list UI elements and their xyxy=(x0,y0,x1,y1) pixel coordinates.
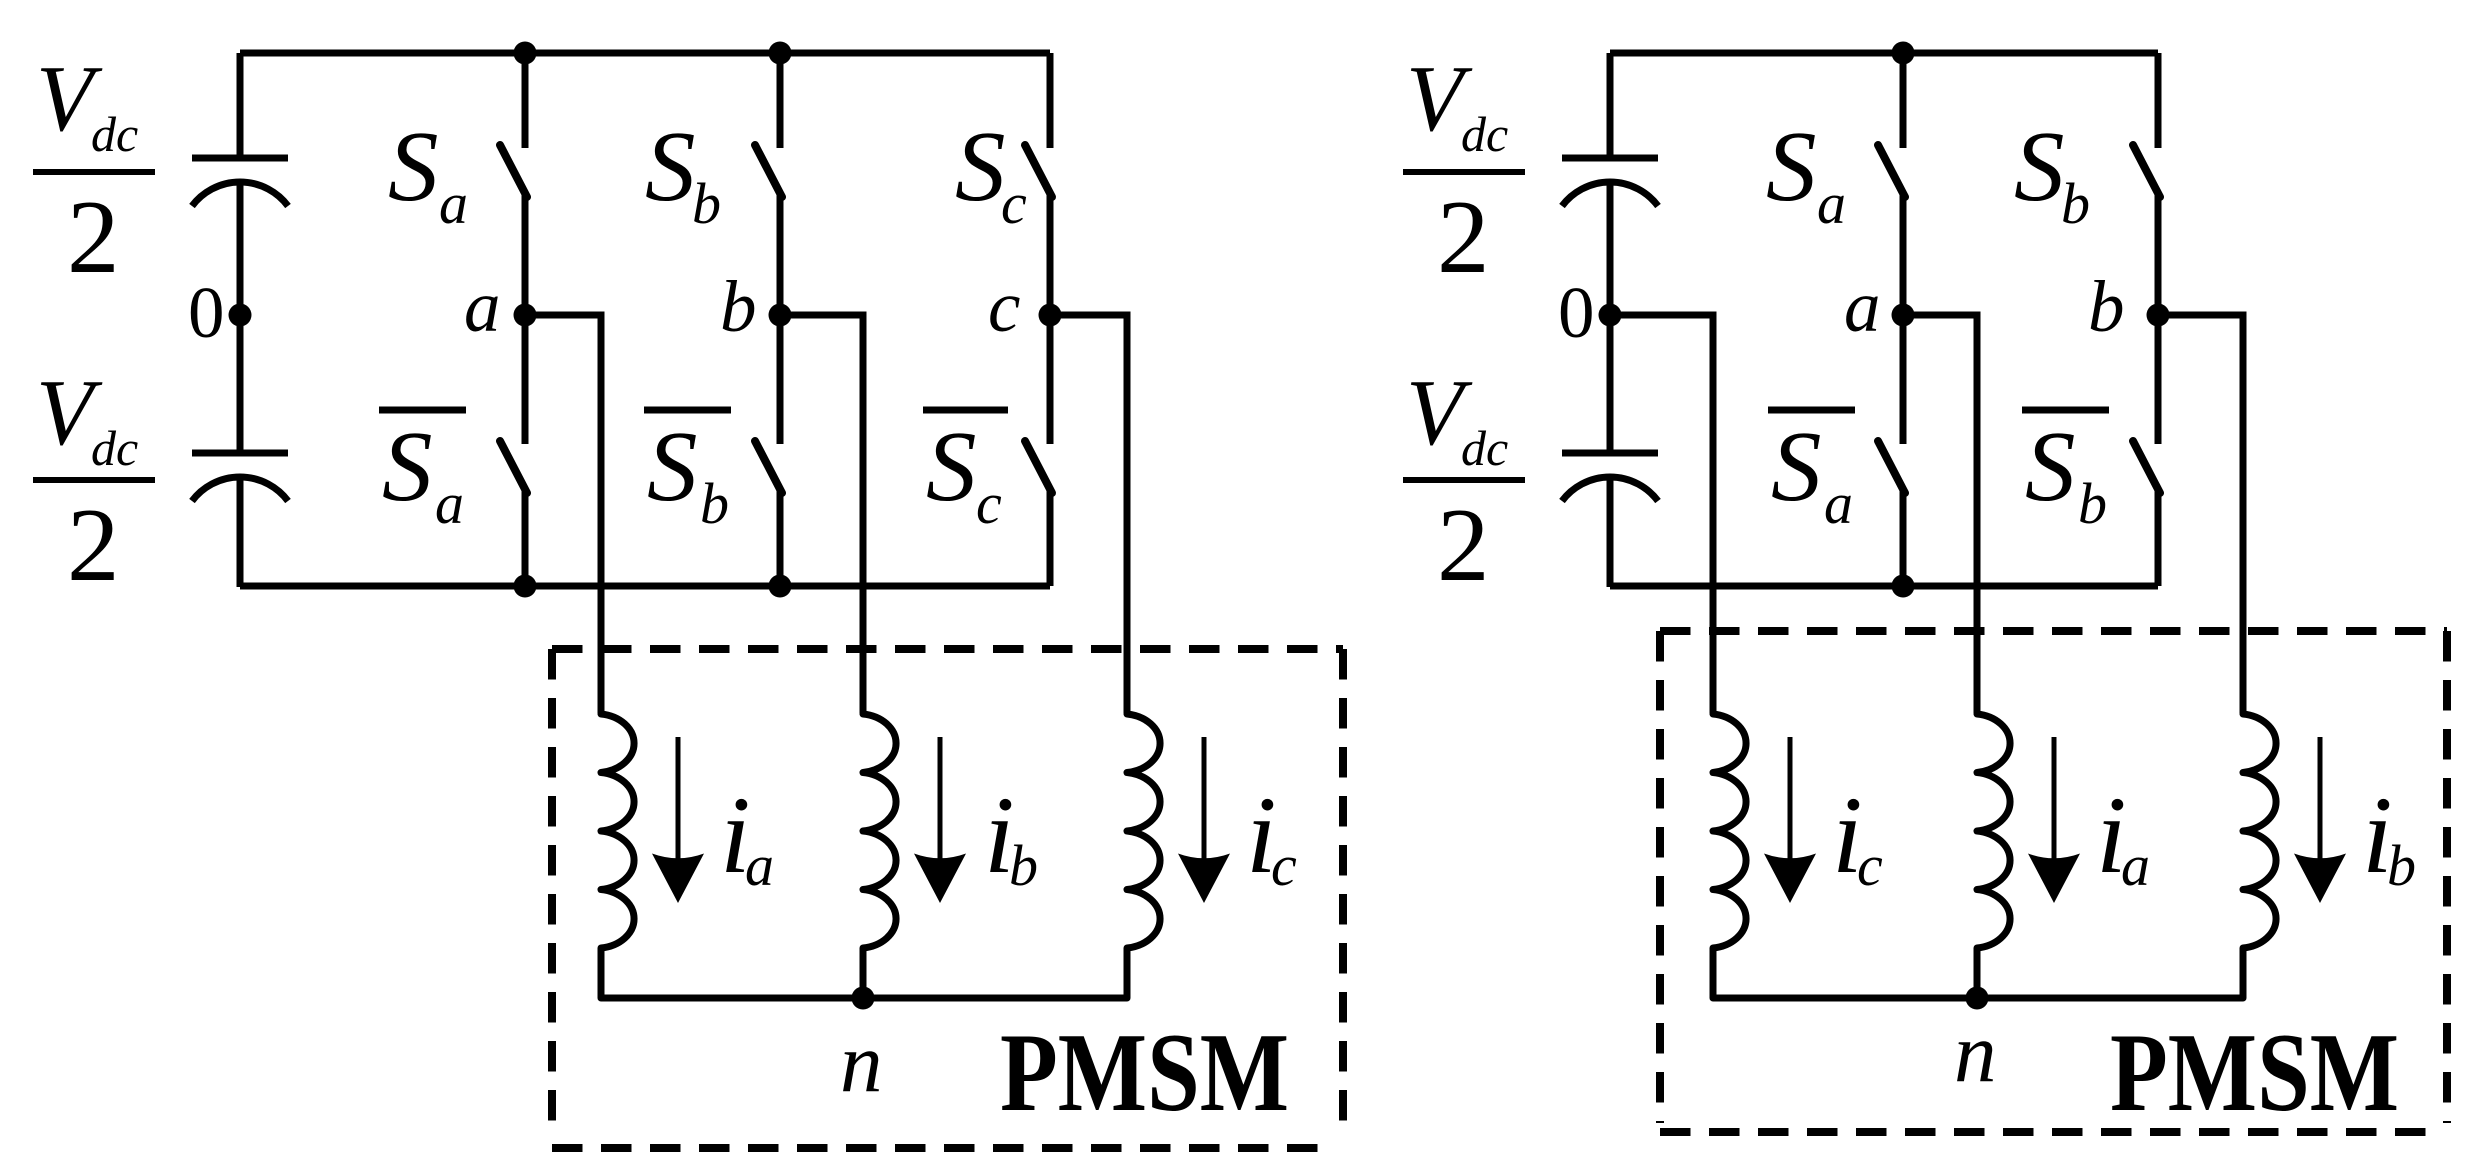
svg-text:S: S xyxy=(647,410,698,522)
current arrow ia (right) xyxy=(2028,737,2080,903)
wire node a to phase-a coil (right) xyxy=(1903,315,1977,713)
wire node b to phase-b coil (right) xyxy=(2158,315,2243,713)
wire node 0 to phase-c coil (right) xyxy=(1610,315,1713,713)
PMSM box (left) xyxy=(552,649,1343,1148)
svg-text:b: b xyxy=(2387,833,2416,898)
wire bottom rail left xyxy=(240,583,1050,590)
node b (left) xyxy=(769,304,792,327)
switch Sa (left) xyxy=(500,53,527,315)
label Vdc/2 upper (right) xyxy=(1403,47,1525,295)
switch S̄b (right) xyxy=(2133,315,2160,586)
label ic (right) xyxy=(1832,774,1883,898)
svg-text:a: a xyxy=(439,171,468,236)
svg-text:PMSM: PMSM xyxy=(1000,1011,1289,1135)
capacitor upper Vdc/2 (right) xyxy=(1562,158,1658,206)
switch S̄a (right) xyxy=(1878,315,1905,586)
capacitor lower Vdc/2 (left) xyxy=(192,453,288,501)
node a (left) xyxy=(514,304,537,327)
svg-text:n: n xyxy=(840,1016,883,1110)
svg-text:b: b xyxy=(2061,171,2090,236)
node top rail / leg b (left) xyxy=(769,42,792,65)
svg-text:PMSM: PMSM xyxy=(2110,1011,2399,1135)
node b (right) xyxy=(2147,304,2170,327)
switch Sb (left) xyxy=(755,53,782,315)
label Sb (left) xyxy=(645,110,721,236)
inductor phase c (left) xyxy=(1127,714,1160,998)
node n (left) xyxy=(852,987,875,1010)
svg-text:dc: dc xyxy=(91,420,138,476)
label S̄a (right) xyxy=(1768,410,1855,536)
svg-text:c: c xyxy=(1271,833,1297,898)
svg-text:c: c xyxy=(988,266,1020,347)
current arrow ib (right) xyxy=(2294,737,2346,903)
node c (left) xyxy=(1039,304,1062,327)
node a (right) xyxy=(1892,304,1915,327)
svg-text:a: a xyxy=(464,266,501,347)
node 0 (right) xyxy=(1599,304,1622,327)
svg-text:b: b xyxy=(1009,833,1038,898)
switch Sa (right) xyxy=(1878,53,1905,315)
wire neutral bus (left) xyxy=(601,995,1127,1002)
wire node b to phase-b coil (left) xyxy=(780,315,863,713)
node bottom rail / leg a (left) xyxy=(514,575,537,598)
inductor phase c (right) xyxy=(1713,714,1746,998)
label S̄b (right) xyxy=(2022,410,2109,536)
wire top rail left xyxy=(240,50,1050,57)
svg-text:S: S xyxy=(1766,110,1817,222)
svg-text:a: a xyxy=(1844,266,1881,347)
svg-text:S: S xyxy=(926,410,977,522)
svg-text:dc: dc xyxy=(1461,420,1508,476)
svg-text:2: 2 xyxy=(67,178,120,295)
inductor phase b (right) xyxy=(2243,714,2276,998)
switch S̄a (left) xyxy=(500,315,527,586)
svg-text:2: 2 xyxy=(1437,486,1490,603)
wire top rail right xyxy=(1610,50,2158,57)
svg-text:n: n xyxy=(1954,1006,1997,1100)
label Sa (right) xyxy=(1766,110,1846,236)
current arrow ic (right) xyxy=(1764,737,1816,903)
PMSM box (right) xyxy=(1660,631,2447,1132)
svg-text:dc: dc xyxy=(1461,106,1508,162)
label S̄b (left) xyxy=(644,410,731,536)
svg-text:a: a xyxy=(1824,471,1853,536)
wire node a to phase-a coil (left) xyxy=(525,315,601,713)
svg-text:a: a xyxy=(2121,833,2150,898)
label ib (left) xyxy=(984,774,1038,898)
inductor phase b (left) xyxy=(863,714,896,998)
svg-text:c: c xyxy=(1001,171,1027,236)
svg-text:0: 0 xyxy=(188,272,225,353)
label ic (left) xyxy=(1246,774,1297,898)
node n (right) xyxy=(1966,987,1989,1010)
switch Sc (left) xyxy=(1025,53,1052,315)
svg-text:S: S xyxy=(955,110,1006,222)
capacitor lower Vdc/2 (right) xyxy=(1562,453,1658,501)
svg-text:b: b xyxy=(2088,266,2125,347)
label ib (right) xyxy=(2362,774,2416,898)
svg-text:b: b xyxy=(700,471,729,536)
current arrow ia (left) xyxy=(652,737,704,903)
label Vdc/2 lower (left) xyxy=(33,361,155,603)
svg-text:a: a xyxy=(435,471,464,536)
switch S̄c (left) xyxy=(1025,315,1052,586)
inductor phase a (right) xyxy=(1977,714,2010,998)
label Sb (right) xyxy=(2014,110,2090,236)
inductor phase a (left) xyxy=(601,714,634,998)
wire dc-link column right xyxy=(1607,53,1614,159)
label ia (left) xyxy=(720,774,774,898)
node bottom rail / leg a (right) xyxy=(1892,575,1915,598)
label Sa (left) xyxy=(388,110,468,236)
svg-text:c: c xyxy=(1857,833,1883,898)
wire bottom rail right xyxy=(1610,583,2158,590)
svg-text:b: b xyxy=(2078,471,2107,536)
label Vdc/2 upper (left) xyxy=(33,47,155,295)
switch S̄b (left) xyxy=(755,315,782,586)
svg-text:a: a xyxy=(1817,171,1846,236)
svg-text:0: 0 xyxy=(1558,272,1595,353)
svg-text:2: 2 xyxy=(1437,178,1490,295)
svg-text:b: b xyxy=(692,171,721,236)
switch Sb (right) xyxy=(2133,53,2160,315)
svg-text:S: S xyxy=(1771,410,1822,522)
label Vdc/2 lower (right) xyxy=(1403,361,1525,603)
capacitor upper Vdc/2 (left) xyxy=(192,158,288,206)
svg-text:dc: dc xyxy=(91,106,138,162)
label Sc (left) xyxy=(955,110,1027,236)
wire node c to phase-c coil (left) xyxy=(1050,315,1127,713)
svg-text:S: S xyxy=(382,410,433,522)
svg-text:a: a xyxy=(745,833,774,898)
label S̄a (left) xyxy=(379,410,466,536)
current arrow ib (left) xyxy=(914,737,966,903)
svg-text:2: 2 xyxy=(67,486,120,603)
current arrow ic (left) xyxy=(1178,737,1230,903)
svg-text:c: c xyxy=(976,471,1002,536)
node top rail / leg a (left) xyxy=(514,42,537,65)
label ia (right) xyxy=(2096,774,2150,898)
wire dc-link column left xyxy=(237,53,244,159)
wire neutral bus (right) xyxy=(1713,995,2243,1002)
label S̄c (left) xyxy=(923,410,1008,536)
svg-text:S: S xyxy=(2025,410,2076,522)
svg-text:S: S xyxy=(645,110,696,222)
svg-text:S: S xyxy=(388,110,439,222)
node top rail / leg a (right) xyxy=(1892,42,1915,65)
svg-text:S: S xyxy=(2014,110,2065,222)
node bottom rail / leg b (left) xyxy=(769,575,792,598)
node 0 (left) xyxy=(229,304,252,327)
svg-text:b: b xyxy=(720,266,757,347)
